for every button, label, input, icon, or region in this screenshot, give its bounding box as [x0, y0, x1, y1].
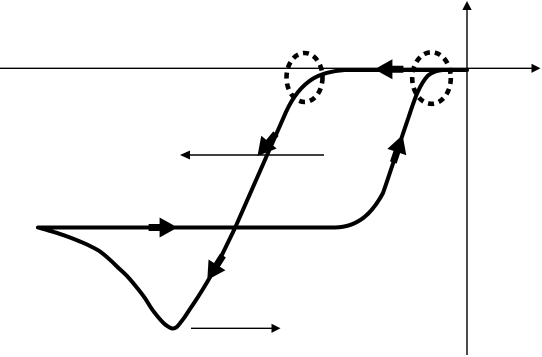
- thin right arrow (bottom): [191, 327, 272, 329]
- block arrow down 1 (descending branch, upper): [250, 127, 284, 162]
- block arrow down 2 (descending branch, lower): [199, 250, 231, 285]
- vertical axis: [466, 9, 468, 355]
- horizontal axis: [0, 67, 533, 69]
- block arrow right (lower branch): [149, 218, 178, 238]
- horizontal axis arrowhead: [532, 64, 541, 73]
- dashed circle right: [412, 52, 451, 104]
- thin left arrow (middle): [188, 154, 324, 156]
- dashed circle left: [287, 53, 323, 102]
- block arrow left (upper branch): [374, 59, 403, 79]
- vertical axis arrowhead: [462, 1, 471, 10]
- block arrow up (ascending branch): [384, 132, 412, 166]
- hysteresis loop curve: [38, 70, 467, 329]
